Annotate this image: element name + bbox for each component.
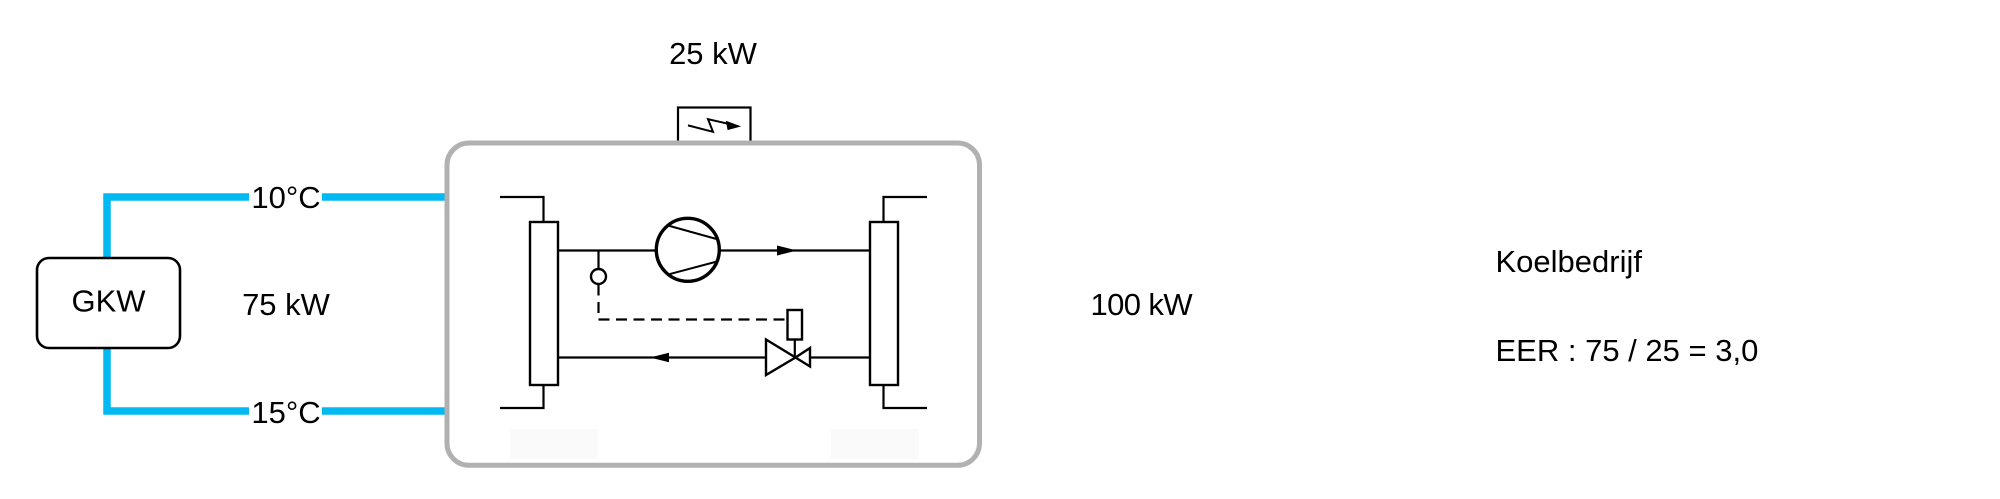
condenser heat exchanger <box>870 222 898 385</box>
compressor upper vane <box>668 226 718 240</box>
ghost rectangle right <box>831 429 919 459</box>
valve stem <box>794 340 796 358</box>
lightning arrowhead <box>727 122 740 130</box>
svg-text:100 kW: 100 kW <box>1091 287 1194 322</box>
condenser bottom stub <box>884 383 928 408</box>
heat pump unit enclosure <box>447 143 980 465</box>
svg-text:15°C: 15°C <box>251 395 320 430</box>
chilled-water supply pipe 10°C (GKW top to unit) <box>107 197 448 262</box>
label gap 15°C <box>249 404 322 418</box>
label gap 10°C <box>249 190 322 204</box>
evaporator heat exchanger <box>530 222 558 385</box>
flow arrow right <box>777 246 797 256</box>
svg-text:GKW: GKW <box>71 284 146 319</box>
electric supply box <box>678 108 751 144</box>
svg-text:Koelbedrijf: Koelbedrijf <box>1496 244 1643 279</box>
sensor branch line <box>597 251 599 269</box>
flow arrow left <box>650 353 669 363</box>
GKW chiller box <box>37 258 180 348</box>
svg-text:25 kW: 25 kW <box>669 36 758 71</box>
condenser top stub <box>884 197 928 224</box>
capillary dashed line <box>599 285 791 320</box>
evaporator bottom stub <box>500 383 544 408</box>
expansion valve left triangle <box>766 340 796 376</box>
compressor body <box>656 218 719 281</box>
discharge line top <box>558 249 870 251</box>
svg-text:75 kW: 75 kW <box>242 287 331 322</box>
compressor lower vane <box>669 261 718 274</box>
valve actuator <box>788 310 803 340</box>
sensor bulb <box>591 269 606 284</box>
liquid line bottom <box>558 356 870 358</box>
expansion valve right triangle <box>796 348 811 367</box>
ghost rectangle left <box>510 429 598 459</box>
svg-text:EER : 75 / 25 = 3,0: EER : 75 / 25 = 3,0 <box>1496 333 1759 368</box>
svg-text:10°C: 10°C <box>251 180 320 215</box>
chilled-water return pipe 15°C (GKW bottom to unit) <box>107 344 448 411</box>
evaporator top stub <box>500 197 544 224</box>
lightning flash with arrow <box>688 119 730 132</box>
